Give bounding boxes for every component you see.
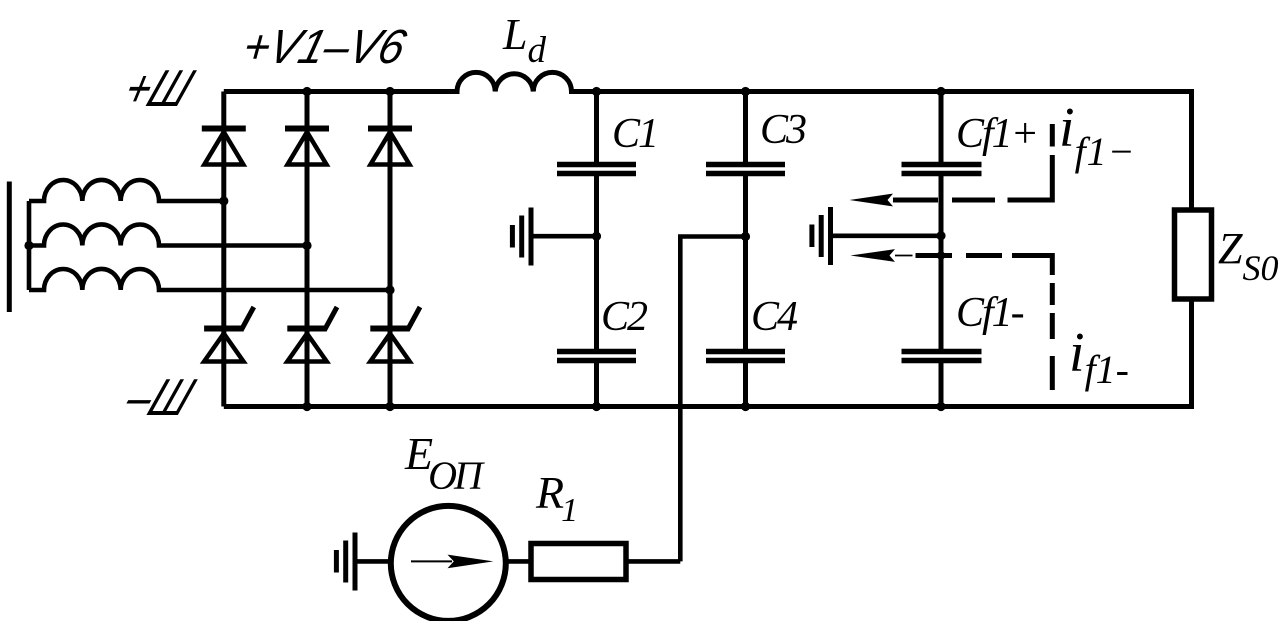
svg-text:Cf1+: Cf1+ bbox=[956, 111, 1037, 157]
svg-text:C2: C2 bbox=[601, 294, 648, 340]
svg-text:+V1–V6: +V1–V6 bbox=[237, 20, 412, 74]
svg-text:Cf1-: Cf1- bbox=[956, 290, 1024, 336]
svg-text:C1: C1 bbox=[612, 111, 657, 157]
svg-text:C3: C3 bbox=[760, 107, 806, 153]
svg-text:C4: C4 bbox=[751, 294, 798, 340]
